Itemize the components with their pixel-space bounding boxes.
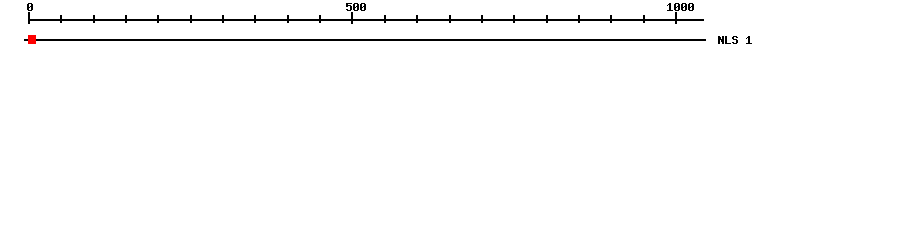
- minor tick 50: [60, 15, 62, 23]
- major tick 1000: [675, 12, 677, 24]
- minor tick 800: [546, 15, 548, 23]
- minor tick 900: [610, 15, 612, 23]
- minor tick 450: [319, 15, 321, 23]
- minor tick 850: [578, 15, 580, 23]
- scale label 500: [346, 3, 366, 11]
- minor tick 550: [384, 15, 386, 23]
- ruler axis line: [28, 19, 704, 21]
- scale label 1000: [667, 3, 694, 11]
- minor tick 650: [449, 15, 451, 23]
- feature marker NLS 1 (red square): [28, 35, 36, 44]
- scale label 0: [27, 3, 33, 11]
- minor tick 700: [481, 15, 483, 23]
- minor tick 350: [254, 15, 256, 23]
- minor tick 150: [125, 15, 127, 23]
- minor tick 950: [643, 15, 645, 23]
- minor tick 100: [93, 15, 95, 23]
- major tick 0: [28, 12, 30, 24]
- minor tick 300: [222, 15, 224, 23]
- feature baseline (sequence line): [24, 39, 706, 41]
- minor tick 200: [157, 15, 159, 23]
- feature label "NLS 1": [718, 36, 752, 44]
- minor tick 400: [287, 15, 289, 23]
- minor tick 750: [513, 15, 515, 23]
- minor tick 250: [190, 15, 192, 23]
- major tick 500: [351, 12, 353, 24]
- minor tick 600: [416, 15, 418, 23]
